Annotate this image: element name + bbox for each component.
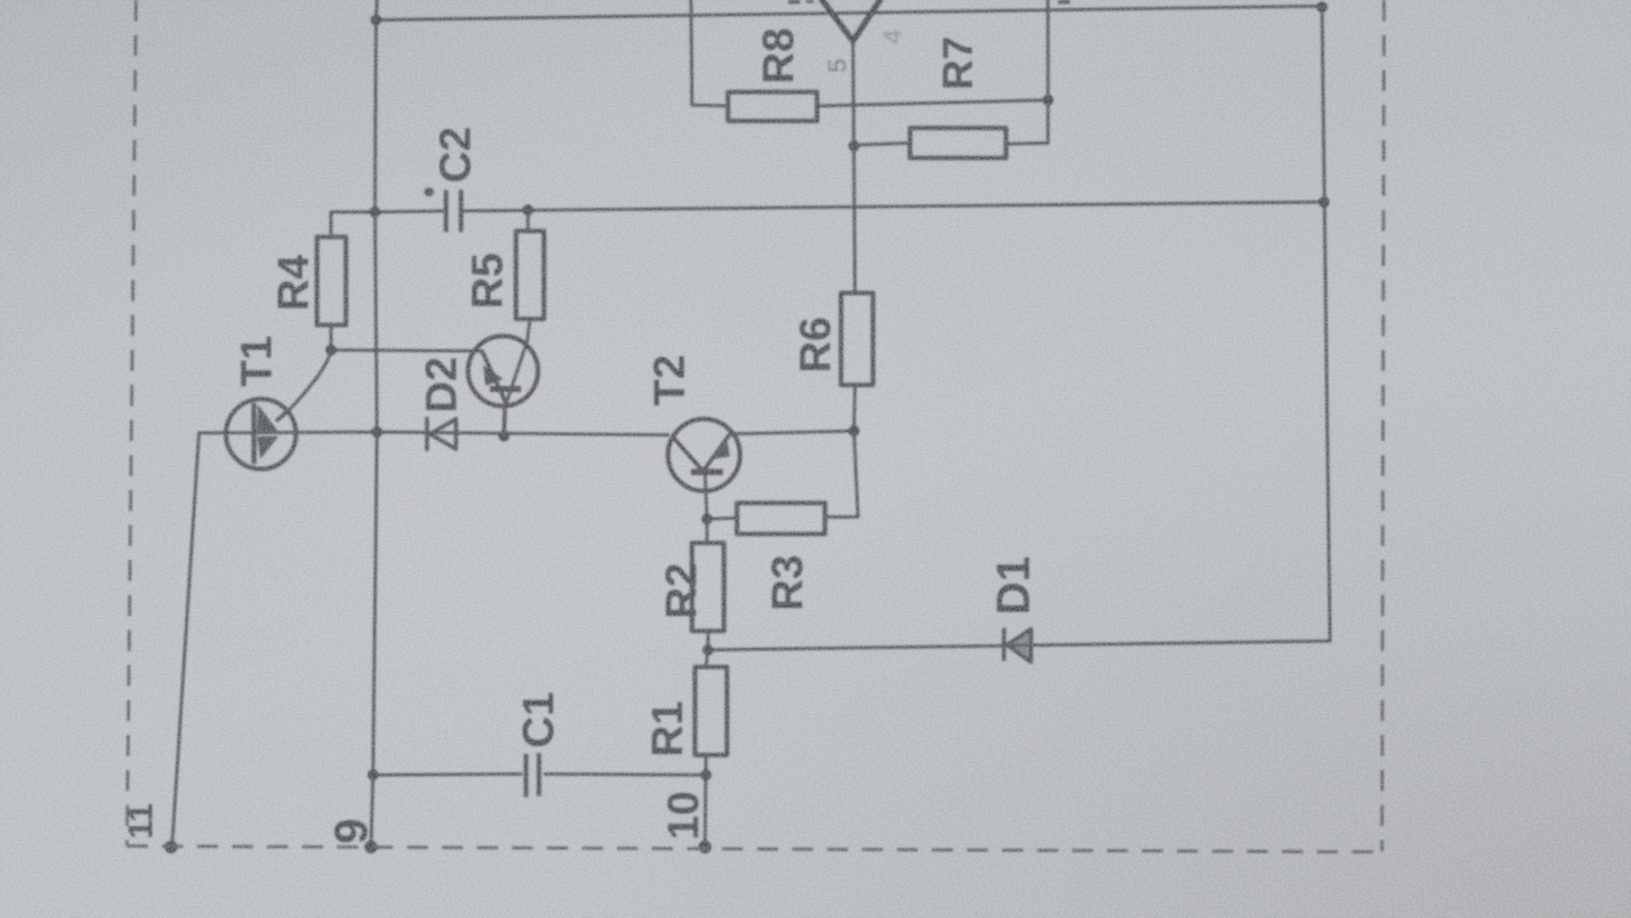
resistor R7: [910, 128, 1006, 158]
junction pin5 line / R7 left: [849, 141, 860, 152]
diode D1: [1004, 628, 1031, 662]
diode D2: [427, 417, 456, 451]
junction C2 rail / R5 top: [523, 205, 534, 216]
wire: R2 bottom to node 10 rail: [706, 631, 709, 650]
wire: node to R1: [706, 650, 708, 667]
terminal 10: [699, 841, 712, 854]
wire: R5 top: [526, 210, 529, 231]
resistor R2: [692, 543, 724, 631]
junction C2 rail / right rail: [1319, 197, 1330, 208]
wire: R1 bottom to terminal 10: [705, 755, 706, 847]
wire: R7 left to pin5 vertical: [855, 143, 910, 145]
resistor R5: [516, 231, 544, 319]
transistor T2: [668, 419, 740, 491]
cut-off glyphs at top edge: [788, 0, 1070, 4]
wire: R8 left leg: [691, 0, 728, 106]
wire: collector node down to R3: [825, 431, 858, 517]
wire: T1 gate diagonal: [288, 351, 331, 411]
junction T2 emitter / R3 / R2: [702, 514, 713, 525]
junction anode rail / Q1 emitter: [499, 431, 510, 442]
wire: C1 wire left: [373, 774, 521, 775]
wire: R7 right leg vertical: [1006, 0, 1048, 144]
wire: top horizontal rail: [376, 6, 1322, 20]
resistor R6: [841, 293, 873, 385]
terminal 11: [165, 841, 178, 854]
wire: gate node to transistor base: [331, 350, 482, 351]
terminal 9: [365, 841, 378, 854]
resistor R3: [737, 503, 825, 534]
op-amp U1 output tip: [822, 0, 880, 41]
capacitor C2 polarity mark: [424, 188, 434, 197]
junction C1 left / V1: [368, 770, 379, 781]
enclosure dashed boundary left: [127, 0, 136, 846]
wire: R4 bottom to gate node: [329, 325, 332, 350]
resistor R4: [317, 237, 346, 325]
wire: slant line to terminal 11: [172, 433, 199, 847]
wire: T2 emitter to R2: [705, 472, 707, 543]
wire: R3 left to R2 top node: [707, 518, 737, 519]
wire: IC pin 5 vertical: [853, 42, 855, 293]
wire: main horizontal (T1 anode rail): [199, 432, 668, 435]
node T1 gate / R4 bottom: [326, 345, 337, 356]
resistor R1: [695, 667, 727, 755]
enclosure dashed boundary bottom: [127, 846, 1381, 852]
wire: R6 bottom: [854, 385, 855, 431]
enclosure dashed boundary right: [1382, 0, 1384, 851]
wire: C2 rail right segment: [464, 202, 1324, 211]
resistor R8: [728, 92, 817, 121]
junction C2 rail / V1: [370, 207, 381, 218]
transistor Q1 (driver by D2): [468, 336, 538, 436]
wire: C2 rail left segment: [331, 211, 443, 237]
junction anode rail / V1: [372, 427, 383, 438]
capacitor C1: [526, 753, 539, 797]
wire: C1 wire right: [545, 774, 706, 775]
junction R2 / R1 / D1 rail: [703, 645, 714, 656]
junction top rail / right rail corner: [1317, 2, 1328, 13]
junction C1 right / R1: [701, 770, 712, 781]
junction T2 collector / R6: [849, 426, 860, 437]
junction R8 / R7 right leg: [1043, 95, 1054, 106]
wire: T2 collector rail: [730, 431, 854, 434]
junction top rail / V1: [371, 15, 382, 26]
wire: R5 bottom to transistor collector: [506, 319, 530, 404]
capacitor C2: [446, 190, 461, 232]
wire: main left vertical V1 (node 9 rail): [371, 0, 377, 847]
wire: D1 rail: [708, 6, 1330, 650]
thyristor T1: [226, 399, 296, 469]
wire: R8 right to pin5 node: [817, 100, 1048, 106]
